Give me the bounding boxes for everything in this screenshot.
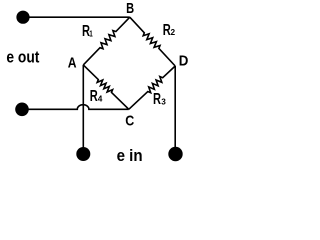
terminal dot e-out lower — [15, 103, 29, 117]
svg-text:C: C — [125, 113, 134, 130]
svg-text:D: D — [179, 52, 189, 69]
resistor R1 (between A and B) — [83, 17, 130, 65]
terminal dot e-out upper — [16, 11, 29, 24]
resistor R2 (between B and D) — [130, 17, 175, 66]
svg-text:e out: e out — [6, 49, 39, 67]
svg-text:3: 3 — [161, 97, 166, 107]
svg-text:B: B — [126, 0, 134, 17]
svg-text:4: 4 — [98, 93, 103, 103]
svg-text:A: A — [68, 54, 77, 71]
svg-text:e in: e in — [117, 147, 143, 165]
terminal dot e-in right — [168, 147, 182, 161]
resistor R4 (between A and C) — [83, 65, 129, 109]
wire: node A down to e-in terminal — [82, 65, 84, 150]
svg-text:1: 1 — [89, 30, 93, 39]
wire top: e-out terminal to node B — [23, 16, 130, 18]
terminal dot e-in left — [76, 147, 90, 161]
wire: node D down to e-in terminal — [174, 66, 176, 150]
svg-text:R: R — [153, 91, 161, 108]
svg-text:2: 2 — [171, 27, 176, 37]
wire: e-out lower terminal to node C with hop over vertical wire — [22, 105, 129, 110]
resistor R3 (between C and D) — [129, 66, 175, 109]
